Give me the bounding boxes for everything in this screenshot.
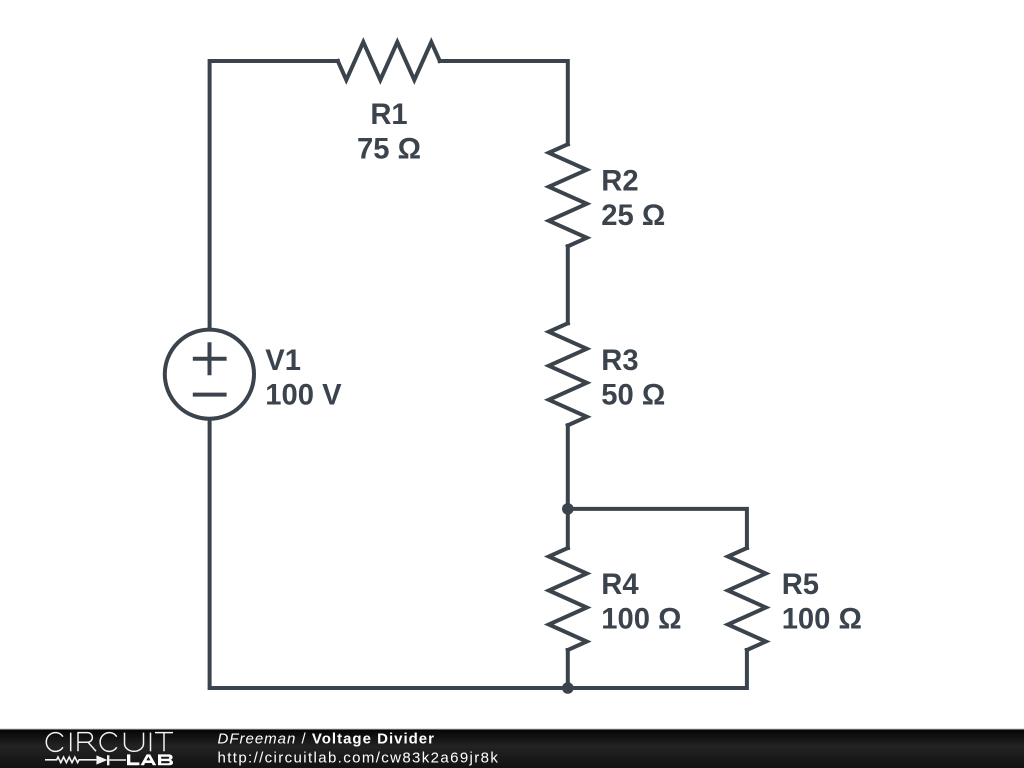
wire R4 to node B <box>566 650 570 688</box>
resistor R2 <box>549 144 587 246</box>
svg-text:100 Ω: 100 Ω <box>601 603 681 635</box>
wire R2 to R3 <box>566 246 570 323</box>
wire node A to R4 <box>566 509 570 548</box>
logo LAB letter A <box>141 754 157 765</box>
node B junction dot <box>562 682 574 694</box>
V1 plus sign <box>195 344 225 373</box>
CircuitLab logo CIRCUIT wordmark <box>46 733 173 752</box>
svg-text:50 Ω: 50 Ω <box>601 379 665 411</box>
svg-text:100 Ω: 100 Ω <box>782 603 862 635</box>
wire from V1 plus terminal up and right to R1 left lead <box>210 61 338 328</box>
svg-text:http://circuitlab.com/cw83k2a6: http://circuitlab.com/cw83k2a69jr8k <box>218 750 500 767</box>
node A junction dot <box>562 503 574 515</box>
resistor R1 <box>338 42 440 80</box>
svg-text:R3: R3 <box>601 345 638 377</box>
svg-text:75 Ω: 75 Ω <box>357 133 421 165</box>
svg-text:100 V: 100 V <box>265 379 342 411</box>
svg-text:DFreeman / Voltage Divider: DFreeman / Voltage Divider <box>218 731 435 748</box>
svg-text:R1: R1 <box>370 99 407 131</box>
svg-text:R4: R4 <box>601 569 639 601</box>
V1 minus sign <box>195 393 225 397</box>
svg-text:R5: R5 <box>782 569 819 601</box>
svg-text:25 Ω: 25 Ω <box>601 200 665 232</box>
wire node B left and up to V1 minus terminal <box>210 420 568 688</box>
voltage source V1 circle <box>165 330 254 419</box>
wire R5 bottom to node B <box>568 650 747 688</box>
logo resistor-diode squiggle <box>45 755 126 765</box>
wire R3 to node A <box>566 425 570 509</box>
wire node A right and down to R5 <box>568 509 747 548</box>
logo LAB letter B <box>158 754 173 765</box>
wire from R1 right lead to top-right corner down to R2 <box>440 61 568 144</box>
svg-text:V1: V1 <box>265 345 301 377</box>
resistor R3 <box>549 323 587 425</box>
resistor R5 <box>728 548 766 650</box>
resistor R4 <box>549 548 587 650</box>
logo LAB letter L <box>127 754 139 765</box>
svg-text:R2: R2 <box>601 165 638 197</box>
logo diode triangle <box>96 755 107 764</box>
